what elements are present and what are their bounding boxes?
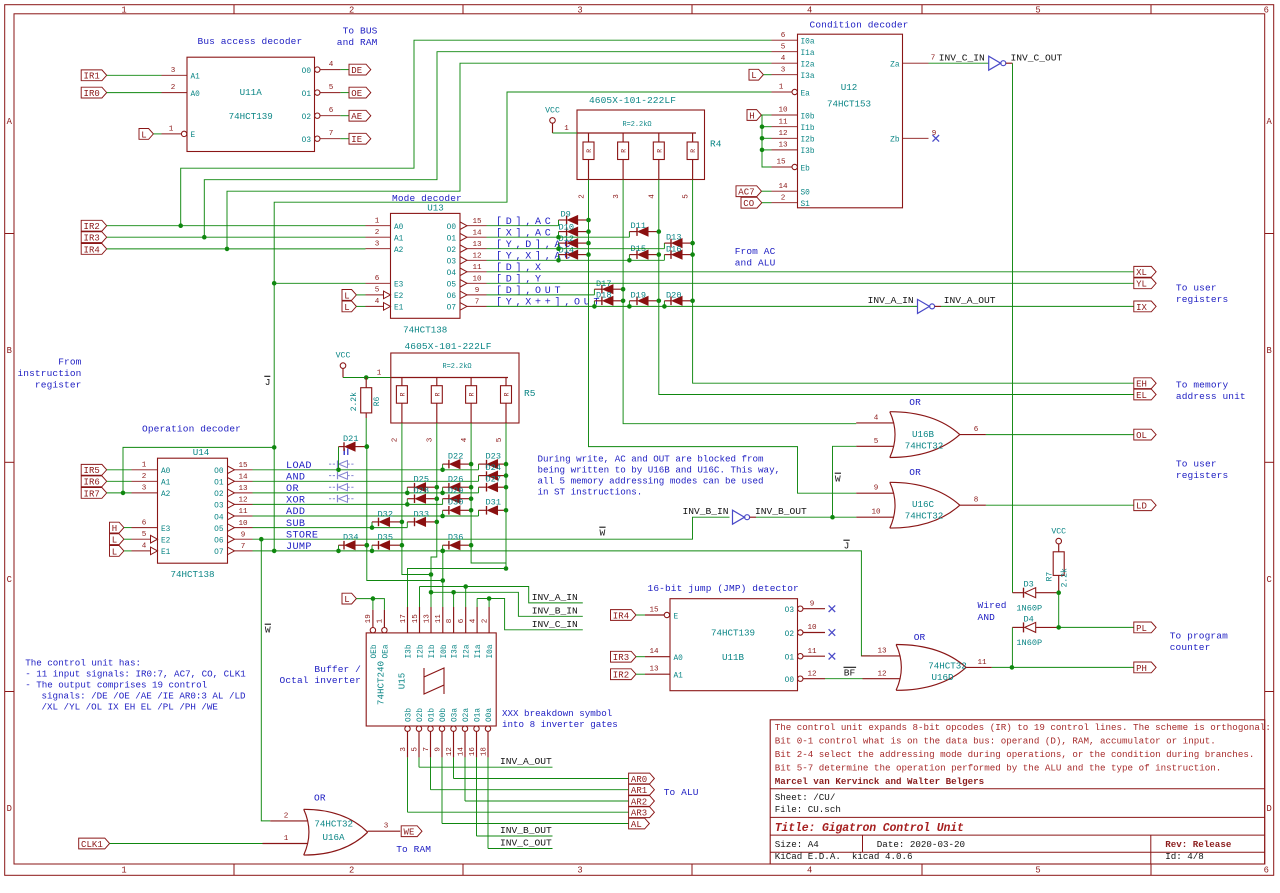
svg-text:D22: D22 <box>448 452 463 462</box>
diode D28 <box>406 499 408 505</box>
global label IR2 <box>81 220 107 231</box>
wire INV_A_OUT to IX <box>935 305 941 307</box>
svg-text:O6: O6 <box>214 538 224 546</box>
svg-text:IR3: IR3 <box>613 653 629 663</box>
svg-text:3: 3 <box>142 485 147 493</box>
svg-text:U11B: U11B <box>722 652 745 663</box>
svg-text:4605X-101-222LF: 4605X-101-222LF <box>405 341 492 352</box>
svg-text:L: L <box>112 547 117 557</box>
svg-text:IR5: IR5 <box>84 466 100 476</box>
svg-text:4: 4 <box>807 866 812 876</box>
wire R4 col4 to EH <box>693 180 1134 384</box>
svg-text:3: 3 <box>384 823 389 831</box>
junction D4 PL <box>1056 625 1061 630</box>
diode D36 <box>442 545 444 551</box>
svg-text:74HCT32: 74HCT32 <box>905 511 944 522</box>
svg-text:D32: D32 <box>378 509 393 519</box>
svg-text:O2: O2 <box>214 491 224 499</box>
pin O3 of U14 (inverted) <box>228 501 235 509</box>
svg-text:AL: AL <box>631 820 642 830</box>
svg-text:OEb: OEb <box>371 644 379 658</box>
svg-text:10: 10 <box>778 107 788 115</box>
pin I2b of U15 <box>419 607 421 633</box>
wire net [D],OUT <box>487 294 595 296</box>
pin I1b of U12 <box>772 126 798 128</box>
pin O6 of U13 (inverted) <box>460 291 467 299</box>
svg-text:E: E <box>674 613 679 621</box>
pin Zb of U12 <box>903 137 929 139</box>
diode D12 <box>559 242 567 244</box>
pin Eb of U12 <box>772 166 792 168</box>
svg-text:VCC: VCC <box>1051 527 1066 536</box>
pin I0b of U15 <box>442 607 444 633</box>
svg-text:Marcel van Kervinck and Walter: Marcel van Kervinck and Walter Belgers <box>775 776 985 787</box>
global label L at U13 E2 <box>342 290 356 301</box>
wire net [Y,D],AC <box>487 248 665 250</box>
junction D25 anode jog <box>405 491 410 496</box>
global label AE <box>349 110 371 121</box>
svg-text:12: 12 <box>446 747 454 757</box>
svg-text:D35: D35 <box>378 533 393 543</box>
svg-text:O5: O5 <box>447 282 457 290</box>
global label L at U13 E1 <box>342 301 356 312</box>
resistor pack R5 elements <box>391 377 508 379</box>
svg-text:5: 5 <box>1035 866 1040 876</box>
diode D17 <box>593 289 595 295</box>
svg-text:I3a: I3a <box>801 73 815 81</box>
svg-text:W: W <box>265 624 271 635</box>
svg-text:SUB: SUB <box>286 519 305 530</box>
svg-text:INV_A_OUT: INV_A_OUT <box>944 295 996 306</box>
pin 4 of U16B <box>856 422 893 424</box>
svg-text:E2: E2 <box>161 538 171 546</box>
svg-text:O1: O1 <box>214 480 224 488</box>
svg-text:1: 1 <box>564 125 569 133</box>
svg-text:74HCT240: 74HCT240 <box>376 661 387 705</box>
svg-text:D11: D11 <box>631 221 646 231</box>
svg-text:R=2.2kΩ: R=2.2kΩ <box>623 121 652 129</box>
svg-text:13: 13 <box>877 647 887 655</box>
svg-text:To ALU: To ALU <box>664 787 699 798</box>
global label CLK1 <box>79 838 110 849</box>
junction D30 anode jog <box>440 514 445 519</box>
svg-text:14: 14 <box>238 474 248 482</box>
diode D15 <box>628 255 630 261</box>
pin A1 of U14 <box>132 480 158 482</box>
svg-text:VCC: VCC <box>545 107 560 116</box>
svg-text:Bit 2-4 select the addressing: Bit 2-4 select the addressing mode durin… <box>775 749 1255 760</box>
svg-text:D20: D20 <box>666 290 681 300</box>
svg-text:15: 15 <box>776 159 786 167</box>
wire VCC to R4 pin1 <box>553 132 578 134</box>
svg-text:3: 3 <box>375 240 380 248</box>
svg-text:registers: registers <box>1176 470 1228 481</box>
svg-text:R: R <box>586 149 593 153</box>
svg-text:A0: A0 <box>674 655 684 663</box>
svg-text:D26: D26 <box>448 475 463 485</box>
svg-text:R: R <box>400 392 407 396</box>
svg-text:O4: O4 <box>214 514 224 522</box>
wire L to OEb OEa <box>356 599 384 610</box>
svg-text:U15: U15 <box>397 673 408 690</box>
pin 9 of U16C <box>856 492 893 494</box>
junction on Ea chain at JUMP row <box>272 549 277 554</box>
svg-text:LOAD: LOAD <box>286 461 312 472</box>
pin I2a of U12 <box>772 62 798 64</box>
global label IR5 <box>81 464 107 475</box>
wire IR3 riser to U12 <box>204 52 771 238</box>
svg-text:O3a: O3a <box>452 708 460 722</box>
svg-text:The control unit expands 8-bit: The control unit expands 8-bit opcodes (… <box>775 722 1271 733</box>
svg-text:Condition decoder: Condition decoder <box>810 19 909 30</box>
junction D12 cathode col <box>586 241 591 246</box>
wire H bus down to I1b I2b I3b Eb <box>762 115 772 167</box>
diode D30 <box>442 510 444 516</box>
svg-text:12: 12 <box>877 670 887 678</box>
wire U12 Za to INV_C_IN <box>929 62 989 64</box>
svg-text:XOR: XOR <box>286 496 305 507</box>
diode D10 <box>559 231 567 233</box>
svg-text:OR: OR <box>909 397 921 408</box>
svg-text:R: R <box>656 149 663 153</box>
svg-text:AC7: AC7 <box>738 188 754 198</box>
svg-text:IR4: IR4 <box>84 245 100 255</box>
svg-text:9: 9 <box>434 747 442 752</box>
svg-text:4: 4 <box>142 543 147 551</box>
wire U11A O3 to IE <box>340 138 349 140</box>
wire IR4 to U11B E <box>636 614 645 616</box>
svg-text:INV_A_IN: INV_A_IN <box>868 295 914 306</box>
diode D20 <box>663 301 665 307</box>
svg-text:H: H <box>112 524 117 534</box>
svg-text:R7: R7 <box>1046 572 1055 582</box>
pin I3b of U12 <box>772 149 798 151</box>
svg-text:JUMP: JUMP <box>286 542 312 553</box>
svg-text:B: B <box>7 346 12 356</box>
svg-text:signals: /DE /OE /AE /IE AR0:3: signals: /DE /OE /AE /IE AR0:3 AL /LD <box>42 691 246 702</box>
svg-text:5: 5 <box>874 438 879 446</box>
wire R4 col3 to EL <box>659 180 1134 395</box>
pin O4 of U13 (inverted) <box>460 268 467 276</box>
junction IR4 <box>225 247 230 252</box>
wire U16D out to PH <box>992 666 1134 668</box>
wire STORE row to INV_B riser <box>253 517 730 539</box>
svg-text:Size: A4: Size: A4 <box>775 839 820 850</box>
svg-text:Za: Za <box>890 62 900 70</box>
svg-text:D13: D13 <box>666 233 681 243</box>
pin 11 of U16D <box>966 666 992 668</box>
wire net [D],AC <box>487 225 559 227</box>
wire INV_B_OUT to U16C pin10 <box>750 516 756 518</box>
svg-text:U16A: U16A <box>322 832 345 843</box>
wire D9 jog <box>558 220 560 226</box>
global label IR4 <box>81 244 107 255</box>
svg-text:9: 9 <box>241 531 246 539</box>
global label YL <box>1134 278 1156 289</box>
svg-text:D34: D34 <box>343 533 358 543</box>
global label AC7 <box>736 186 762 197</box>
junction D36 anode jog <box>440 549 445 554</box>
diode D13 <box>663 243 665 249</box>
diode D3 <box>1013 592 1024 594</box>
junction D19 jog <box>627 304 632 309</box>
diode D19 <box>628 301 630 307</box>
svg-text:D21: D21 <box>343 434 358 444</box>
svg-text:PH: PH <box>1136 664 1147 674</box>
svg-text:5: 5 <box>142 531 147 539</box>
pin O3 of U11B <box>798 606 803 611</box>
wire U11A O1 to OE <box>340 92 349 94</box>
svg-text:74HCT32: 74HCT32 <box>314 819 353 830</box>
wire BF net <box>825 678 863 680</box>
svg-text:XL: XL <box>1136 268 1147 278</box>
svg-text:- 11 input signals: IR0:7, AC7: - 11 input signals: IR0:7, AC7, CO, CLK1 <box>25 669 246 680</box>
junction D22 anode jog <box>440 468 445 473</box>
wire INV_C_OUT down to D3 <box>1006 62 1013 64</box>
svg-text:File: CU.sch: File: CU.sch <box>775 804 841 815</box>
svg-text:OR: OR <box>286 484 299 495</box>
wire INV_A_OUT <box>419 766 553 768</box>
svg-text:8: 8 <box>974 497 979 505</box>
svg-text:3: 3 <box>171 67 176 75</box>
wire AL <box>442 823 629 825</box>
svg-text:1: 1 <box>121 6 126 16</box>
svg-text:I2a: I2a <box>801 62 815 70</box>
inverter INV_B <box>733 510 745 524</box>
junction D9 cathode col <box>586 218 591 223</box>
junction D14 cathode col <box>586 252 591 257</box>
svg-text:VCC: VCC <box>336 351 351 360</box>
svg-text:O1b: O1b <box>429 708 437 722</box>
inverter INV_A <box>918 299 930 313</box>
svg-text:10: 10 <box>238 520 248 528</box>
svg-text:W: W <box>835 473 841 484</box>
diode D31 <box>478 510 480 516</box>
wire L to U11A E <box>153 133 161 135</box>
svg-text:7: 7 <box>329 130 334 138</box>
svg-text:14: 14 <box>778 183 788 191</box>
wire IR1 to U11A A1 <box>107 74 162 76</box>
pin 8 of U16C <box>960 504 986 506</box>
svg-text:Sheet: /CU/: Sheet: /CU/ <box>775 792 836 803</box>
svg-text:A0: A0 <box>394 224 404 232</box>
svg-text:1N60P: 1N60P <box>1016 603 1042 613</box>
pin E1 of U13 (inverted) <box>366 305 384 307</box>
svg-text:I2b: I2b <box>418 644 426 658</box>
junction D27 cathode <box>504 485 509 490</box>
pin 5 of U16B <box>856 445 893 447</box>
svg-text:1: 1 <box>377 369 382 377</box>
svg-text:U13: U13 <box>427 203 444 214</box>
resistor pack R5 body <box>391 353 519 423</box>
junction R6 tap <box>364 375 369 380</box>
or-gate U16C body <box>890 482 895 528</box>
wire XOR row <box>253 503 443 505</box>
svg-text:6: 6 <box>329 107 334 115</box>
svg-text:EL: EL <box>1136 391 1147 401</box>
global label LD <box>1134 500 1156 511</box>
svg-text:L: L <box>344 303 349 313</box>
svg-text:O0b: O0b <box>440 708 448 722</box>
svg-text:5: 5 <box>375 287 380 295</box>
ic U14 body <box>158 458 228 563</box>
diode D33 <box>406 522 408 528</box>
svg-text:R6: R6 <box>373 396 382 406</box>
note example diodes (light blue) <box>329 463 337 465</box>
svg-text:IE: IE <box>351 135 362 145</box>
wire I0b riser <box>442 551 444 607</box>
svg-text:13: 13 <box>238 485 248 493</box>
junction D33 cathode <box>435 520 440 525</box>
global label IR4 at U11B <box>611 610 637 621</box>
svg-text:S0: S0 <box>801 190 811 198</box>
svg-text:2: 2 <box>349 6 354 16</box>
ic U12 body <box>798 34 903 208</box>
wire I2b riser <box>419 587 421 608</box>
pin A1 of U11B <box>645 673 670 675</box>
svg-text:To memory: To memory <box>1176 380 1229 391</box>
svg-text:I3b: I3b <box>801 148 815 156</box>
inverter INV_C <box>989 56 1001 70</box>
svg-text:INV_C_OUT: INV_C_OUT <box>500 838 552 849</box>
svg-text:9: 9 <box>874 485 879 493</box>
svg-text:4: 4 <box>329 61 334 69</box>
pin O0 of U13 (inverted) <box>460 222 467 230</box>
wire D10 jog <box>558 232 560 238</box>
diode D23 <box>478 464 480 470</box>
svg-text:R4: R4 <box>710 139 722 150</box>
junction D16 to col4 <box>690 252 695 257</box>
svg-text:DE: DE <box>351 66 362 76</box>
svg-text:IR2: IR2 <box>613 671 629 681</box>
wire I0a riser <box>488 599 490 608</box>
global label IR0 <box>81 87 107 98</box>
global label IX <box>1134 301 1156 312</box>
svg-text:I0a: I0a <box>801 39 815 47</box>
wire Ea chain from U12 <box>274 92 771 551</box>
junction R5c4-R5c5 join <box>504 566 509 571</box>
junction STORE to U16A <box>259 537 264 542</box>
svg-text:D15: D15 <box>631 244 646 254</box>
pin O7 of U14 (inverted) <box>228 547 235 555</box>
diode D27 <box>478 487 480 493</box>
svg-text:D: D <box>1267 804 1272 814</box>
svg-text:To user: To user <box>1176 282 1217 293</box>
svg-text:4: 4 <box>469 618 477 623</box>
svg-text:2.2k: 2.2k <box>1061 568 1070 587</box>
svg-text:U12: U12 <box>841 82 858 93</box>
pin 2 of U16A <box>270 820 307 822</box>
global label DE <box>349 64 371 75</box>
svg-text:14: 14 <box>472 229 482 237</box>
junction D26 cathode <box>469 485 474 490</box>
svg-text:O6: O6 <box>447 293 457 301</box>
wire U16B out to OL <box>986 434 1134 436</box>
global label WE <box>401 826 422 837</box>
junction D19 to col3 <box>657 299 662 304</box>
svg-text:16-bit jump (JMP) detector: 16-bit jump (JMP) detector <box>648 583 799 594</box>
svg-text:9: 9 <box>475 287 480 295</box>
svg-text:IR2: IR2 <box>84 222 100 232</box>
svg-text:D36: D36 <box>448 533 463 543</box>
junction D20 to col4 <box>690 299 695 304</box>
wire INV_C row <box>477 599 583 630</box>
pin O1b of U15 (inverted) <box>428 726 433 731</box>
wire IR5 to U14 <box>107 469 132 471</box>
pin 10 of U16C <box>856 516 893 518</box>
svg-text:INV_C_OUT: INV_C_OUT <box>1011 52 1063 63</box>
svg-text:3: 3 <box>613 194 621 199</box>
svg-text:11: 11 <box>807 648 817 656</box>
svg-text:being written to by U16B and U: being written to by U16B and U16C. This … <box>538 465 781 476</box>
svg-text:7: 7 <box>423 747 431 752</box>
svg-text:R: R <box>469 392 476 396</box>
svg-text:D17: D17 <box>596 279 611 289</box>
wire I2a riser <box>465 587 467 608</box>
svg-text:I3a: I3a <box>452 644 460 658</box>
pin OEa of U15 (inverted) <box>382 628 387 633</box>
svg-text:IR3: IR3 <box>84 234 100 244</box>
svg-text:XXX breakdown symbol: XXX breakdown symbol <box>502 708 612 719</box>
svg-text:D10: D10 <box>559 222 574 232</box>
svg-text:D28: D28 <box>414 486 429 496</box>
pin A1 of U13 <box>366 236 391 238</box>
svg-text:OL: OL <box>1136 431 1147 441</box>
svg-text:4605X-101-222LF: 4605X-101-222LF <box>589 95 676 106</box>
svg-text:AR1: AR1 <box>631 786 647 796</box>
global label PH <box>1134 662 1156 673</box>
wire net [X],AC <box>487 236 630 238</box>
svg-text:A1: A1 <box>161 480 171 488</box>
svg-text:J: J <box>265 377 271 388</box>
svg-text:74HCT153: 74HCT153 <box>827 99 871 110</box>
svg-text:A2: A2 <box>394 247 404 255</box>
pin O0 of U11B <box>798 676 803 681</box>
wire L to U14 E1 <box>124 550 132 552</box>
svg-text:U14: U14 <box>193 447 210 458</box>
svg-text:10: 10 <box>472 276 482 284</box>
svg-text:IR1: IR1 <box>84 72 100 82</box>
svg-text:R: R <box>504 392 511 396</box>
svg-text:74HCT139: 74HCT139 <box>711 628 755 639</box>
svg-text:Eb: Eb <box>801 165 811 173</box>
svg-text:O0: O0 <box>302 68 312 76</box>
svg-text:74HCT138: 74HCT138 <box>403 324 447 335</box>
svg-text:O4: O4 <box>447 270 457 278</box>
pin I3b of U15 <box>407 607 409 633</box>
svg-text:and ALU: and ALU <box>735 258 776 269</box>
pin E2 of U14 (inverted) <box>132 538 151 540</box>
diode D21 <box>338 447 340 470</box>
junction D10 cathode col <box>586 229 591 234</box>
junction D30 cathode <box>469 508 474 513</box>
svg-text:I2a: I2a <box>464 644 472 658</box>
svg-text:1: 1 <box>121 866 126 876</box>
pin O2a of U15 (inverted) <box>462 726 467 731</box>
wire IR2 to U11B A1 <box>636 673 645 675</box>
wire INV_B row <box>431 592 583 616</box>
wire CO to U12 S1 <box>762 202 772 204</box>
junction I3a <box>451 590 456 595</box>
junction D25 cathode <box>435 485 440 490</box>
global label L at U14 E2 <box>110 534 124 545</box>
svg-text:3: 3 <box>781 66 786 74</box>
junction D34 anode jog <box>336 549 341 554</box>
svg-text:D30: D30 <box>448 498 463 508</box>
svg-text:Operation decoder: Operation decoder <box>142 424 241 435</box>
svg-text:From: From <box>58 357 81 368</box>
svg-text:AR2: AR2 <box>631 797 647 807</box>
